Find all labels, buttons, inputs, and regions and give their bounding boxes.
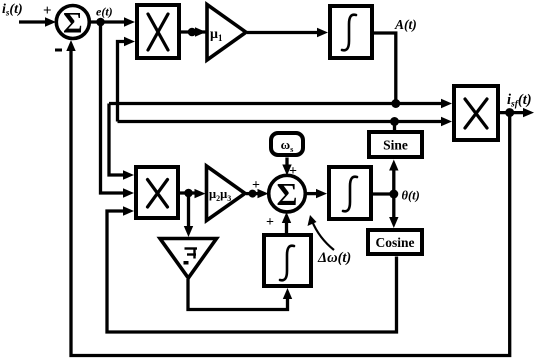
- svg-text:e(t): e(t): [96, 5, 113, 19]
- svg-text:Sine: Sine: [383, 138, 408, 153]
- svg-text:Cosine: Cosine: [375, 235, 414, 250]
- svg-text:+: +: [266, 215, 274, 230]
- svg-text:Σ: Σ: [63, 7, 83, 40]
- svg-text:A(t): A(t): [394, 17, 417, 32]
- svg-text:Δω(t): Δω(t): [317, 250, 351, 266]
- svg-text:+: +: [289, 164, 297, 179]
- svg-text:+: +: [43, 3, 52, 19]
- svg-text:+: +: [252, 178, 260, 193]
- svg-text:isf(t): isf(t): [507, 92, 532, 110]
- svg-text:is(t): is(t): [2, 2, 23, 18]
- svg-text:Σ: Σ: [277, 176, 298, 212]
- svg-text:θ(t): θ(t): [402, 189, 420, 203]
